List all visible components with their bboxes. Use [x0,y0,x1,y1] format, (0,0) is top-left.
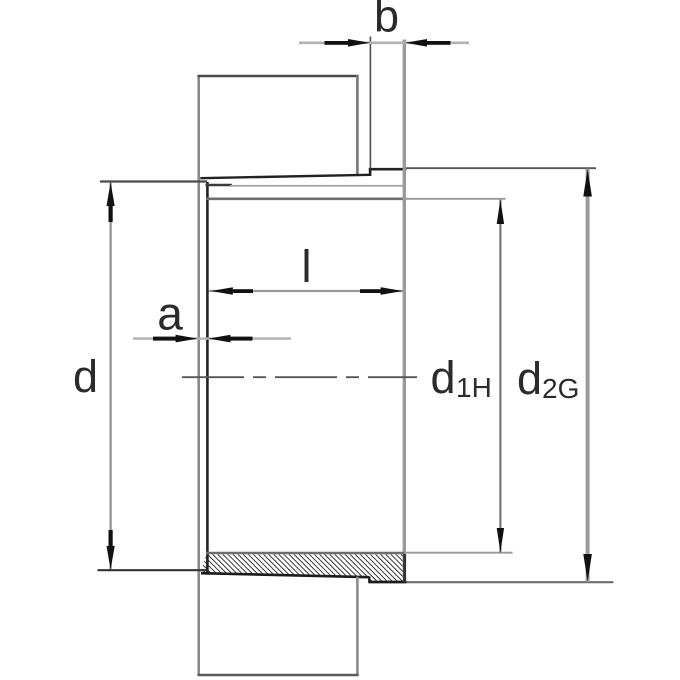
hatched thread section (lower sleeve wall) [201,554,406,581]
centerline (axis) [182,376,417,378]
sleeve right face lower section edge [403,554,406,583]
tapered outer surface (upper) [200,175,369,178]
arrow l right [381,287,403,295]
svg-text:2G: 2G [542,373,579,404]
thread root line (upper, dark start) [206,184,233,187]
left extension line (abutment faces, full height) [197,75,200,676]
extension line d (top) [100,180,207,182]
svg-text:a: a [157,288,183,340]
step edge at large end (upper) [369,169,372,177]
arrow a left [176,335,198,343]
extension line for d1H (top) [404,198,506,200]
sleeve left face [206,182,209,575]
sleeve right face / b extension [403,40,406,582]
extension line for d2G (top) [406,167,596,169]
arrow l left [211,287,233,295]
extension line for d1H (bottom) [404,552,513,554]
threaded land top edge [369,168,407,171]
tapered outer surface (lower) [201,573,369,577]
arrow b left [348,39,370,47]
dimension line l [209,290,405,292]
svg-text:b: b [374,0,399,42]
extension line d (bottom) [98,569,208,571]
b extension line (left) [369,37,371,169]
lower abutment rectangle bottom edge [198,674,359,677]
dimension line d2G [586,169,590,582]
arrow d1H bottom [497,528,504,552]
extension line for d2G (bottom) [407,581,614,583]
thread root line (upper) [230,185,404,187]
svg-text:l: l [302,241,312,292]
bore line (lower) [206,552,405,555]
dimension line b [299,41,469,44]
threaded land bottom edge (lower) [369,581,407,584]
bore line (upper) [206,198,405,201]
arrow d2G top [583,169,592,197]
lower abutment rectangle right edge [356,577,359,676]
svg-text:1H: 1H [456,372,492,403]
arrow d top [107,182,115,206]
upper abutment rectangle right edge [356,75,359,176]
arrow a right [208,335,230,343]
svg-text:d: d [73,351,98,402]
dimension line d1H [499,200,501,553]
threaded land left edge (lower) [368,577,370,583]
dimension line a [133,337,291,339]
upper abutment rectangle top edge [198,75,359,78]
dimension line d [109,183,111,570]
arrow d bottom [107,546,115,570]
svg-text:d: d [431,352,456,403]
arrow d2G bottom [583,554,592,582]
svg-text:d: d [517,353,542,404]
arrow d1H top [497,200,504,224]
arrow b right [405,39,427,47]
